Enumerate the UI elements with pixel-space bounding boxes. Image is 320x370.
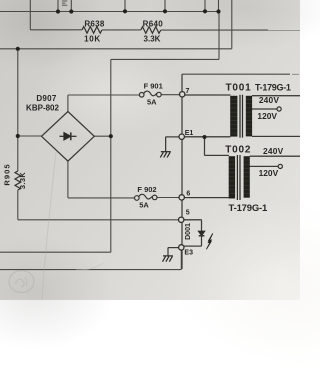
svg-text:T001: T001 <box>226 83 252 94</box>
junction bridge left / R905 branch <box>16 134 20 138</box>
svg-text:T-179G-1: T-179G-1 <box>229 203 268 214</box>
paper crease <box>42 152 56 299</box>
junction top rail stub 3 <box>203 9 207 13</box>
wire E3 to ground <box>168 248 179 256</box>
svg-text:KBP-802: KBP-802 <box>26 104 59 113</box>
bridge rectifier D907 diamond <box>42 112 95 162</box>
terminal E3 <box>179 245 184 250</box>
svg-text:3.3K: 3.3K <box>18 172 27 189</box>
svg-text:6: 6 <box>186 190 190 197</box>
wire T001 secondary bottom off edge <box>252 135 300 137</box>
svg-text:240V: 240V <box>263 146 284 156</box>
terminal 6 <box>179 195 184 200</box>
wire tap line off right edge <box>182 73 290 75</box>
svg-text:E3: E3 <box>184 250 193 257</box>
connector legs top-left component <box>58 0 71 12</box>
wire F902 to terminal 6 <box>157 197 179 199</box>
resistor R638 <box>82 27 102 34</box>
terminal E1 <box>179 134 184 139</box>
transformer T001 core <box>240 95 243 138</box>
junction top rail leg B <box>69 9 73 13</box>
transformer T001 secondary winding <box>246 96 252 137</box>
wire terminal 6 to T002 primary bottom <box>184 197 229 199</box>
svg-text:R638: R638 <box>84 20 105 29</box>
wire bottom branch to terminal 5 <box>18 219 179 221</box>
wire L2 link <box>111 58 219 60</box>
svg-text:E1: E1 <box>185 130 194 137</box>
surge arrow symbol <box>206 233 212 249</box>
svg-text:240V: 240V <box>259 95 280 105</box>
svg-text:3.3K: 3.3K <box>144 35 161 44</box>
svg-text:5A: 5A <box>139 201 149 210</box>
wire E1 to ground <box>166 137 180 152</box>
wire bridge bottom to fuse F902 <box>68 161 135 198</box>
wire bottom rail 2 <box>0 247 181 269</box>
wire V1 dropper <box>218 12 220 60</box>
wire L1 mains rail <box>0 48 232 50</box>
svg-text:5: 5 <box>186 210 190 217</box>
terminal 120V T002 <box>278 164 282 168</box>
junction bridge right / V3 dropper <box>109 134 113 138</box>
wire stub to resistor rail <box>29 0 31 30</box>
wire R905 branch <box>17 49 19 220</box>
wire V3 long dropper <box>110 59 112 252</box>
wire terminal 5 to diode D001 <box>184 220 202 231</box>
terminal 5 <box>179 217 184 222</box>
winding texture <box>229 100 252 194</box>
wire resistor rail <box>30 29 268 31</box>
svg-text:T002: T002 <box>225 144 251 155</box>
fuse F902 <box>135 194 158 200</box>
bridge diode symbol <box>60 132 77 140</box>
svg-text:T-179G-1: T-179G-1 <box>255 83 291 93</box>
wire terminal 7 to T001 primary top <box>185 94 231 96</box>
svg-text:5A: 5A <box>147 98 157 107</box>
terminal 120V T001 <box>277 107 281 111</box>
svg-text:R640: R640 <box>143 20 164 29</box>
transformer T001 primary winding <box>230 96 237 137</box>
wire D001 to E3 <box>184 236 202 246</box>
junction top rail leg A <box>56 9 60 13</box>
transformer T002 primary winding <box>229 156 235 198</box>
wire T001 secondary 120V tap <box>252 108 277 110</box>
transformer T002 secondary winding <box>244 156 250 198</box>
junction top rail right end <box>216 9 220 13</box>
svg-text:120V: 120V <box>259 168 279 178</box>
svg-text:F 902: F 902 <box>137 185 156 194</box>
wire E1 to T001 primary bottom <box>184 136 230 138</box>
terminal 7 <box>180 92 185 97</box>
wire bridge right <box>94 135 111 137</box>
ground E1 <box>160 152 171 158</box>
wire T002 secondary 240V off edge <box>250 155 300 157</box>
junction E1 wire / T002 branch <box>203 135 207 139</box>
wire F901 to terminal 7 <box>161 94 180 96</box>
wire T001 secondary 240V off edge <box>252 95 300 97</box>
svg-text:10K: 10K <box>84 35 101 44</box>
wire top rail <box>0 11 219 13</box>
wire bridge left <box>18 135 42 137</box>
svg-text:D001: D001 <box>185 223 192 240</box>
wire bottom rail 1 <box>0 251 111 253</box>
fuse F901 <box>139 91 161 97</box>
ground E3 <box>163 256 174 262</box>
darker middle-column overlay strokes <box>166 74 300 269</box>
svg-text:F 901: F 901 <box>144 82 163 91</box>
transformer T002 core <box>237 155 240 200</box>
svg-text:120V: 120V <box>257 111 277 121</box>
wire T002 secondary 120V tap <box>250 165 278 167</box>
wire terminal bus <box>181 74 183 269</box>
svg-text:7: 7 <box>185 88 189 95</box>
stamp mark bottom left <box>9 271 34 293</box>
resistor R640 <box>141 27 161 34</box>
resistor R905 <box>15 171 21 190</box>
wire bridge top to fuse F901 <box>68 95 139 112</box>
junction top rail stub 2 <box>163 9 167 13</box>
wire V2 riser <box>231 0 233 49</box>
junction L1 / R905 branch <box>16 47 20 51</box>
svg-text:R905: R905 <box>3 163 12 185</box>
svg-text:D907: D907 <box>36 94 57 103</box>
wire stubs from top edge <box>125 0 219 12</box>
wire branch to T002 primary top <box>205 137 229 155</box>
cut-off label at top edge <box>62 1 67 5</box>
junction top rail stub 1 <box>123 9 127 13</box>
diode D001 <box>199 231 205 236</box>
